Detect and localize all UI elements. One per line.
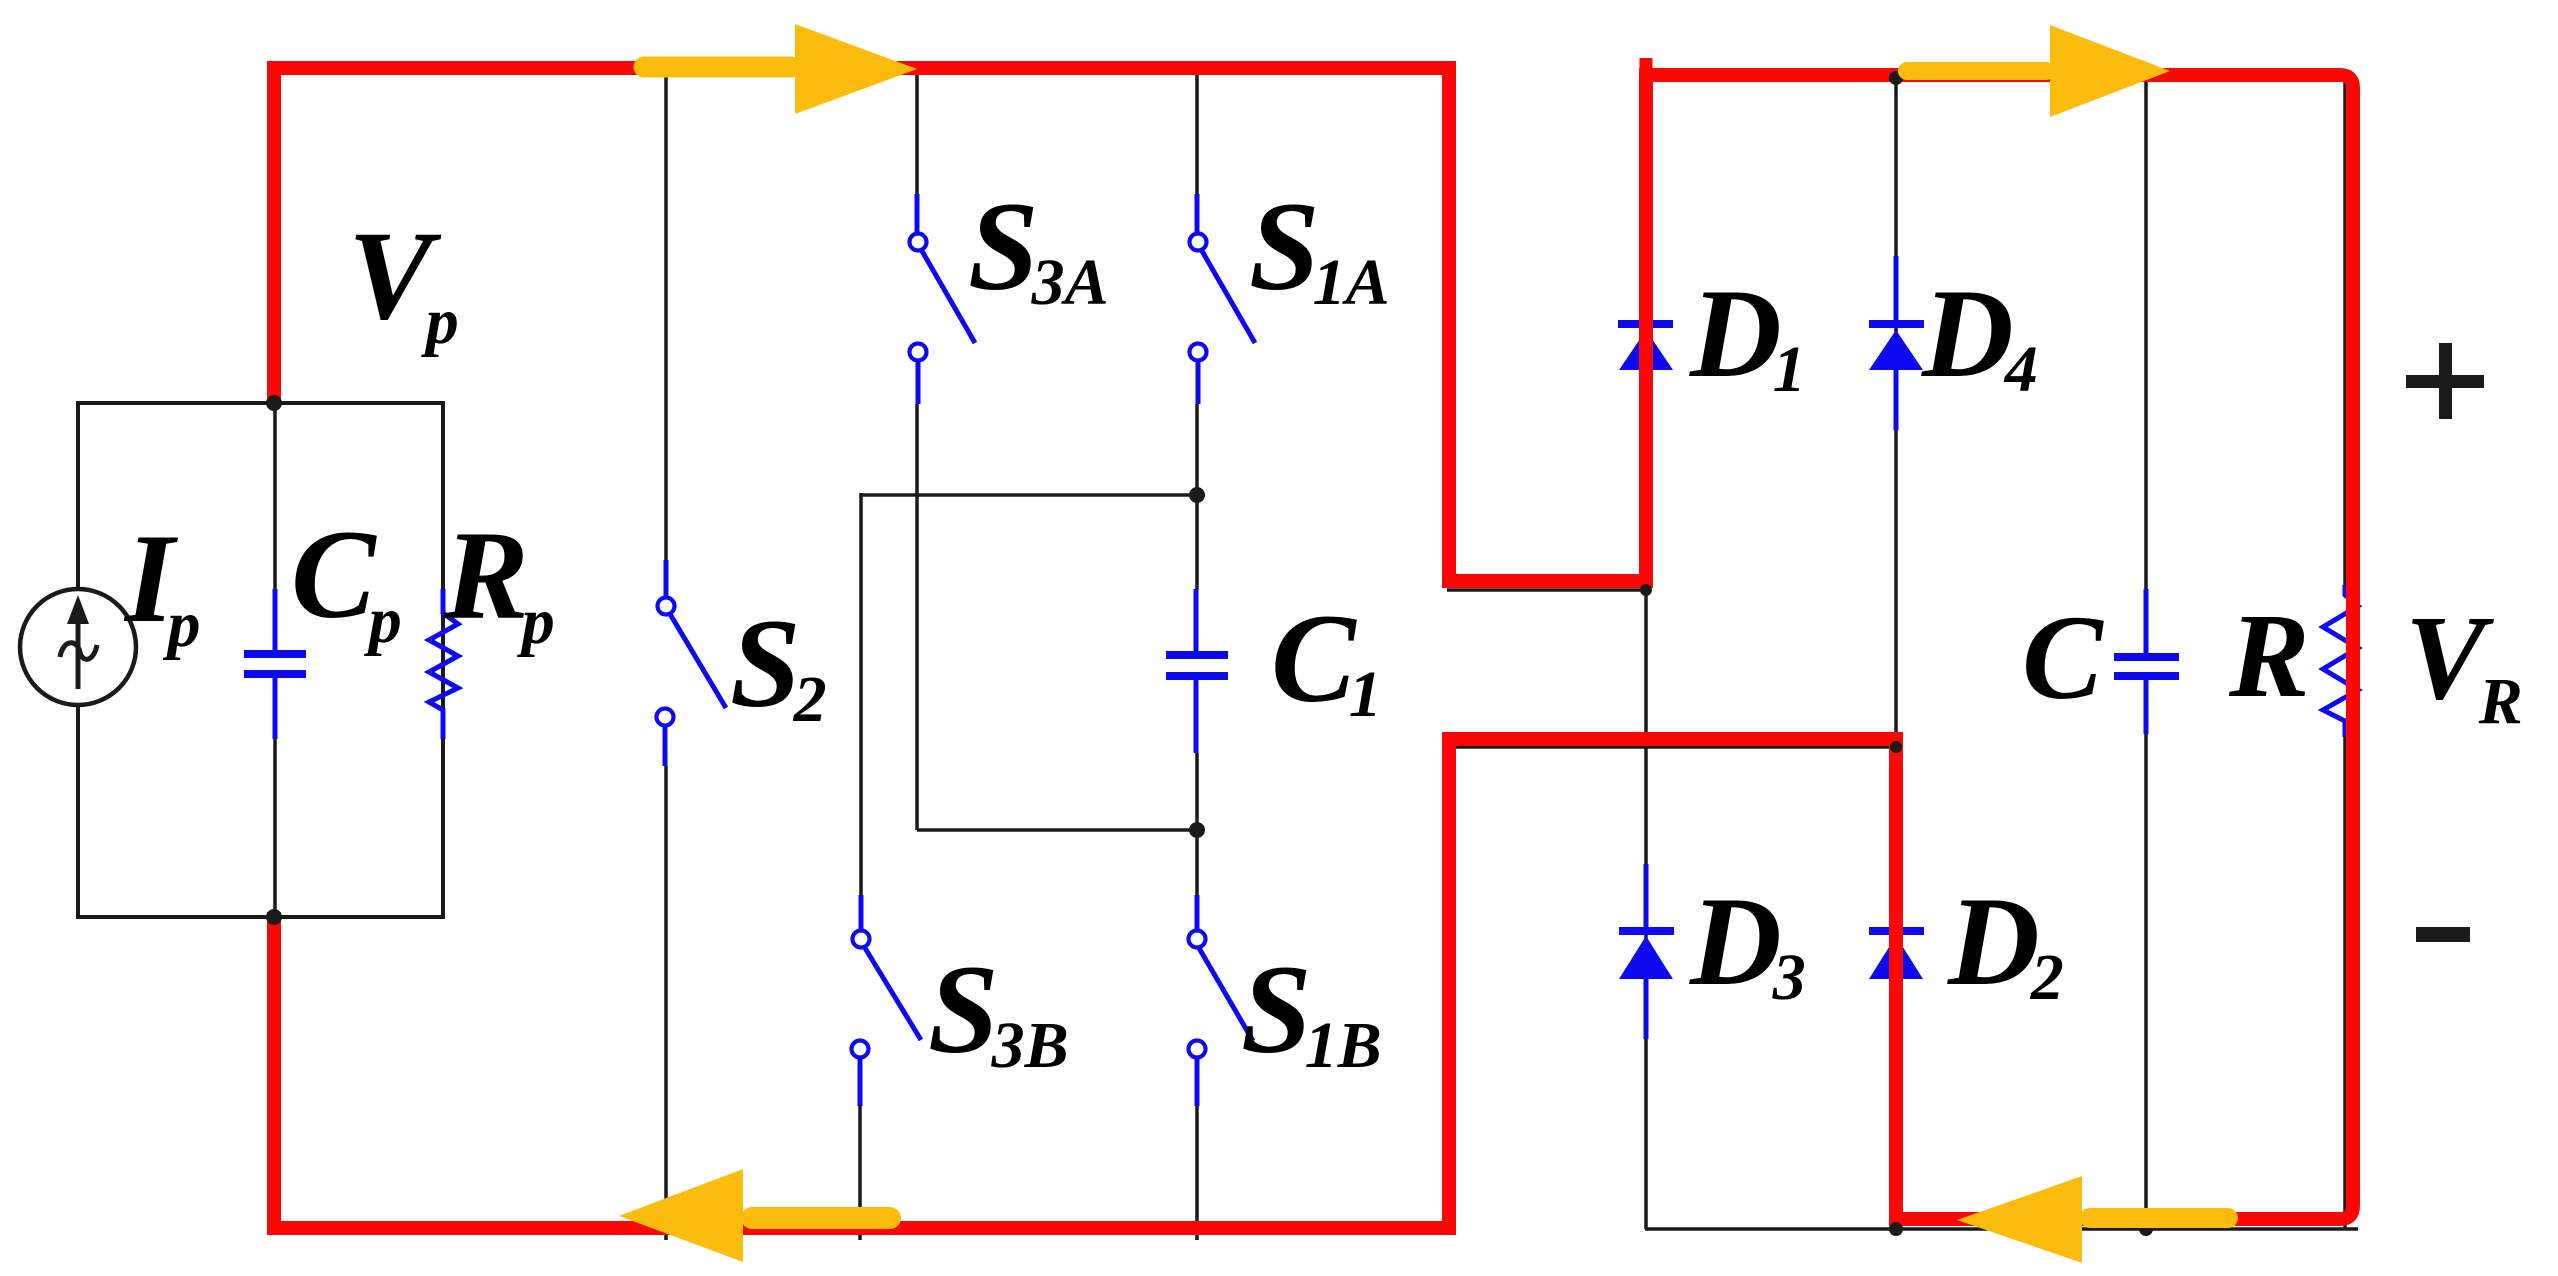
node D4 top junction bbox=[1889, 71, 1903, 85]
wire D1-D3 branch bbox=[1644, 74, 1648, 1229]
wire S3B riser bbox=[859, 493, 863, 895]
switch S2 wire lower bbox=[664, 766, 668, 1240]
capacitor C1 bbox=[1166, 495, 1228, 830]
capacitor Cp bbox=[244, 403, 306, 917]
svg-text:R: R bbox=[2228, 589, 2310, 723]
current path stub above D1 bbox=[1640, 58, 1653, 80]
svg-text:S3A: S3A bbox=[968, 177, 1109, 319]
node bridge input B junction bbox=[1890, 741, 1902, 753]
node Vp bottom junction bbox=[266, 909, 282, 925]
resistor Rp bbox=[429, 403, 458, 917]
resistor R bbox=[2323, 585, 2358, 737]
wire S1A to C1 node bbox=[1195, 404, 1199, 495]
resistor R branch wires bbox=[2343, 74, 2347, 586]
switch S3B wire lower bbox=[858, 1106, 862, 1240]
capacitor C bbox=[2114, 589, 2179, 734]
switch S1B wire lower bbox=[1195, 1106, 1199, 1240]
wire C1 bottom link bbox=[917, 828, 1197, 832]
svg-text:VR: VR bbox=[2405, 591, 2523, 738]
switch S3B bbox=[852, 895, 922, 1106]
wire parallel box around Ip Cp Rp bbox=[78, 403, 443, 917]
diode D4 bbox=[1869, 256, 1924, 430]
svg-text:Vp: Vp bbox=[348, 206, 459, 358]
wire DC minus rail bbox=[1645, 1227, 2358, 1231]
node bridge input A junction bbox=[1640, 584, 1652, 596]
node Vp top junction bbox=[266, 395, 282, 411]
wire C1 top link bbox=[861, 493, 1197, 497]
capacitor C branch wires bbox=[2144, 74, 2148, 589]
svg-text:Rp: Rp bbox=[443, 506, 555, 658]
diode D1 bbox=[1618, 320, 1673, 370]
switch S1A bbox=[1190, 194, 1256, 404]
current source Ip bbox=[20, 589, 136, 705]
svg-text:D4: D4 bbox=[1921, 264, 2038, 406]
node C1 bottom junction bbox=[1189, 822, 1205, 838]
switch S1A wire upper bbox=[1195, 74, 1199, 194]
switch S1B bbox=[1189, 895, 1254, 1106]
wire bridge input node B return bbox=[1452, 745, 1896, 749]
node D2 bottom junction bbox=[1889, 1222, 1903, 1236]
switch S3A wire upper bbox=[915, 74, 919, 194]
svg-text:Ip: Ip bbox=[123, 509, 200, 661]
switch S1B wire upper bbox=[1195, 830, 1199, 895]
svg-text:D2: D2 bbox=[1947, 872, 2064, 1014]
svg-text:C1: C1 bbox=[1271, 589, 1382, 731]
svg-text:D1: D1 bbox=[1689, 264, 1806, 406]
svg-text:D3: D3 bbox=[1689, 872, 1806, 1014]
current arrow top-right bbox=[1907, 25, 2170, 117]
wire D4-D2 branch bbox=[1894, 74, 1898, 1229]
svg-text:S1A: S1A bbox=[1249, 177, 1390, 319]
current arrow bottom-left bbox=[619, 1169, 890, 1262]
svg-text:Cp: Cp bbox=[291, 505, 402, 657]
diode D3 bbox=[1619, 864, 1674, 1039]
switch S2 bbox=[657, 560, 727, 766]
current arrow bottom-right bbox=[1957, 1176, 2228, 1263]
node C1 top junction bbox=[1189, 487, 1205, 503]
label plus sign bbox=[2406, 343, 2484, 419]
switch S3A wire lower bbox=[915, 404, 919, 830]
switch S2 wire upper bbox=[664, 74, 668, 560]
svg-text:S2: S2 bbox=[730, 594, 827, 736]
switch S3A bbox=[910, 194, 976, 404]
wire bridge input node A bbox=[1447, 588, 1646, 592]
svg-text:C: C bbox=[2022, 591, 2104, 725]
svg-text:S3B: S3B bbox=[928, 940, 1069, 1082]
svg-text:S1B: S1B bbox=[1241, 940, 1382, 1082]
diode D2 bbox=[1869, 864, 1924, 1039]
current path red loop bbox=[274, 68, 2353, 1228]
current arrow top-left bbox=[644, 24, 917, 114]
node C bottom junction bbox=[2139, 1222, 2153, 1236]
label minus sign bbox=[2416, 927, 2470, 942]
